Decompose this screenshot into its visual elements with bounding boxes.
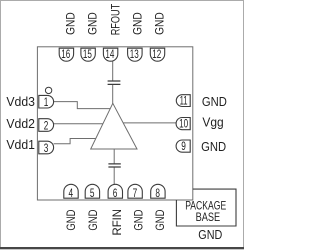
pin 11 [176, 95, 190, 108]
pin 16 [59, 48, 73, 61]
svg-text:GND: GND [64, 209, 78, 230]
svg-text:5: 5 [90, 188, 95, 200]
svg-text:Vdd1: Vdd1 [6, 137, 35, 152]
capacitor output DC block [108, 81, 121, 84]
pin 3 [39, 141, 54, 155]
pin 2 [39, 119, 54, 133]
wire amplifier base to input capacitor to pin6 (RFIN path) [113, 149, 115, 185]
pin 7 [128, 184, 142, 199]
svg-text:Vdd3: Vdd3 [6, 94, 35, 109]
pin 13 [128, 48, 143, 61]
svg-text:6: 6 [113, 188, 118, 200]
package outline [37, 47, 192, 200]
svg-text:GND: GND [86, 209, 100, 230]
svg-text:7: 7 [133, 188, 138, 200]
wire Vgg from amplifier to pin10 [123, 122, 176, 124]
pin 6 [108, 184, 122, 199]
package base box [176, 189, 236, 226]
svg-text:RFIN: RFIN [110, 209, 124, 236]
svg-text:GND: GND [85, 12, 99, 35]
svg-text:GND: GND [153, 12, 167, 35]
svg-text:12: 12 [152, 49, 161, 61]
svg-text:14: 14 [105, 49, 114, 61]
svg-text:BASE: BASE [196, 210, 221, 224]
pin 1 indicator circle [45, 87, 51, 93]
svg-text:8: 8 [155, 188, 160, 200]
svg-text:GND: GND [153, 209, 167, 230]
pin 15 [81, 48, 95, 61]
svg-text:3: 3 [44, 143, 49, 155]
svg-text:GND: GND [202, 94, 227, 109]
svg-text:GND: GND [130, 12, 144, 35]
svg-text:Vgg: Vgg [202, 115, 223, 130]
amplifier triangle [91, 103, 137, 149]
pin 14 [103, 48, 117, 61]
pin 5 [85, 184, 99, 199]
svg-text:13: 13 [130, 49, 139, 61]
svg-text:16: 16 [61, 49, 70, 61]
pin 10 [176, 118, 190, 131]
svg-text:9: 9 [181, 141, 186, 153]
wire pin14 to output capacitor to amplifier apex (RFOUT path) [112, 61, 114, 104]
svg-text:GND: GND [132, 209, 146, 230]
svg-text:Vdd2: Vdd2 [6, 116, 35, 131]
svg-text:15: 15 [83, 49, 92, 61]
wire Vdd3 from pin1 to amplifier [54, 102, 111, 109]
svg-text:4: 4 [69, 188, 74, 200]
svg-text:2: 2 [44, 120, 49, 132]
wire Vdd1 from pin3 to amplifier [54, 139, 96, 144]
pin 12 [150, 48, 164, 61]
svg-text:1: 1 [44, 97, 49, 109]
svg-text:11: 11 [180, 96, 188, 108]
pin 4 [64, 184, 78, 200]
pin 1 [39, 95, 54, 109]
svg-text:GND: GND [63, 12, 77, 35]
wire Vdd2 from pin2 to amplifier [54, 123, 103, 125]
svg-text:GND: GND [201, 139, 226, 154]
pin 8 [151, 184, 165, 200]
capacitor input DC block [108, 164, 120, 167]
svg-text:RFOUT: RFOUT [109, 3, 123, 35]
pin 9 [176, 140, 190, 153]
svg-text:10: 10 [179, 119, 188, 131]
svg-text:GND: GND [198, 228, 222, 242]
